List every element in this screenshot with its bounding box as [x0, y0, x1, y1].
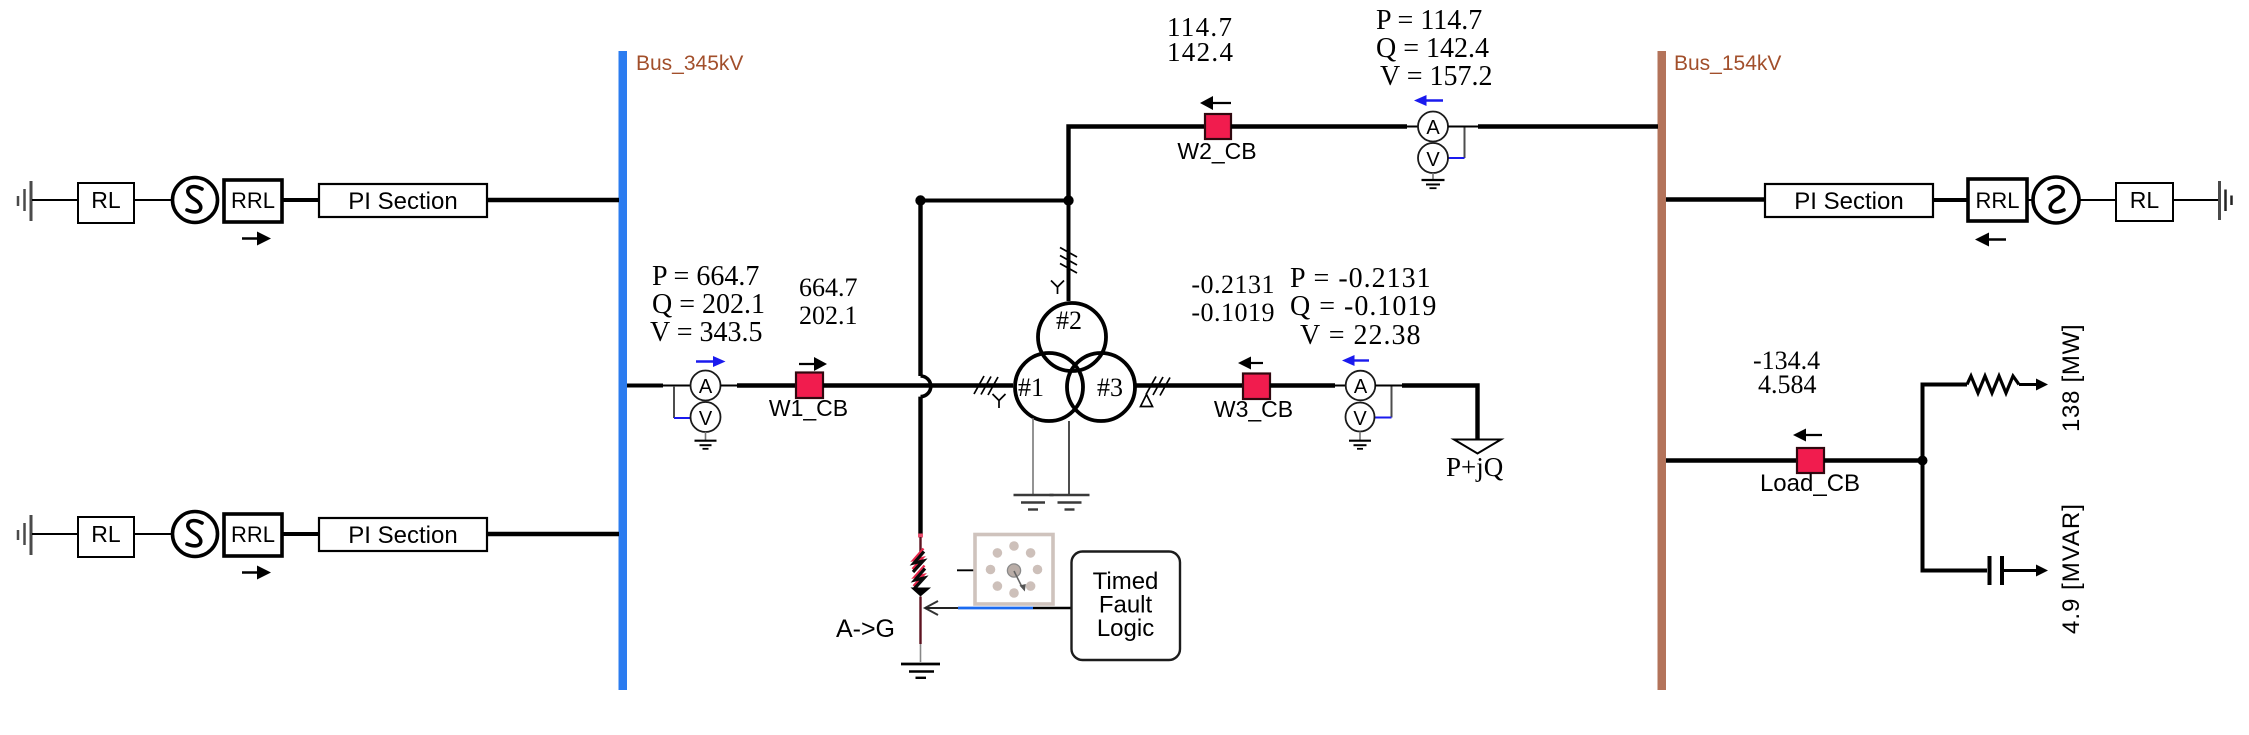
wire node A to node B	[918, 199, 1069, 203]
svg-text:Bus_345kV: Bus_345kV	[636, 52, 743, 75]
ground (meter W3)	[1349, 432, 1371, 449]
svg-text:PI Section: PI Section	[1794, 188, 1903, 215]
blue arrow (meter W1)	[696, 356, 726, 367]
svg-text:V: V	[699, 408, 713, 430]
transformer 3-winding: circle #2	[1038, 303, 1106, 371]
svg-text:Q = 202.1: Q = 202.1	[652, 289, 765, 320]
ammeter A (W1)	[691, 371, 721, 401]
ground (meter W2)	[1422, 173, 1445, 188]
svg-text:-0.2131: -0.2131	[1191, 270, 1275, 299]
blue arrow (meter W3)	[1342, 355, 1369, 366]
voltmeter V (W1)	[691, 402, 721, 432]
svg-text:RL: RL	[2130, 187, 2160, 213]
resistor-inductor RL (top-left)	[78, 183, 134, 223]
resistor load (MW)	[1967, 376, 2019, 393]
blue arrow (meter W2)	[1414, 95, 1443, 106]
text 114.7 142.4	[1167, 12, 1234, 67]
breaker W1_CB	[796, 373, 823, 399]
text 664.7 202.1	[799, 273, 858, 330]
wire ground to RL (top-left)	[32, 199, 78, 201]
svg-text:202.1: 202.1	[799, 301, 858, 330]
wire node B up and across to Bus_154kV (W2 run)	[1069, 127, 1206, 201]
wire fault branch vertical with hop over W1 wire	[918, 202, 922, 376]
fault bolt 1	[913, 549, 925, 573]
svg-text:Load_CB: Load_CB	[1760, 470, 1860, 497]
capacitor load (MVAR)	[1990, 556, 2003, 585]
svg-text:P+jQ: P+jQ	[1446, 452, 1504, 482]
svg-text:V = 22.38: V = 22.38	[1300, 320, 1422, 351]
text P=-0.2131 Q=-0.1019 V=22.38	[1290, 263, 1437, 351]
svg-text:W2_CB: W2_CB	[1177, 138, 1256, 164]
svg-text:W3_CB: W3_CB	[1214, 396, 1293, 422]
svg-text:V = 343.5: V = 343.5	[650, 317, 763, 348]
svg-text:V: V	[1353, 408, 1367, 430]
svg-text:Bus_154kV: Bus_154kV	[1674, 52, 1781, 75]
bus Bus_154kV	[1658, 51, 1667, 690]
wire W2_CB to meter	[1231, 124, 1407, 128]
delta symbol (winding 3)	[1141, 395, 1153, 407]
breaker W3_CB	[1243, 374, 1270, 400]
meter bracket W1	[674, 386, 690, 418]
winding ticks (above #2)	[1060, 248, 1077, 274]
arrow right (under RRL top-left)	[242, 232, 271, 246]
ammeter A (W3)	[1346, 371, 1376, 401]
arrow left (above Load_CB)	[1793, 429, 1822, 442]
wire to capacitor load	[1921, 569, 1988, 573]
fault module crimson tick	[918, 534, 923, 538]
svg-text:Q = -0.1019: Q = -0.1019	[1290, 291, 1437, 322]
fault lead maroon	[919, 537, 921, 553]
text P=114.7 Q=142.4 V=157.2	[1376, 5, 1493, 92]
wire source to RL (right)	[2079, 199, 2116, 201]
winding ticks (left of #1)	[974, 376, 998, 395]
svg-text:V = 157.2: V = 157.2	[1380, 61, 1493, 92]
fault arrowhead down	[911, 588, 932, 597]
svg-text:664.7: 664.7	[799, 273, 858, 302]
source S (bottom-left)	[173, 512, 218, 557]
svg-text:138 [MW]: 138 [MW]	[2058, 324, 2085, 432]
breaker Load_CB	[1797, 448, 1824, 473]
wire PI to RRL (right)	[1933, 198, 1968, 202]
wire to resistor load	[1921, 383, 1968, 387]
wire RL to source (top-left)	[134, 199, 173, 201]
svg-text:142.4: 142.4	[1167, 37, 1234, 67]
resistor-inductor RL (bottom-left)	[78, 517, 134, 557]
transformer ground stems	[1032, 418, 1034, 495]
svg-text:A: A	[699, 376, 713, 398]
transformer circle #3	[1067, 353, 1135, 421]
wire bus to meter W1	[627, 384, 663, 388]
svg-text:A: A	[1426, 117, 1440, 139]
PI Section (top-left)	[319, 184, 487, 217]
svg-text:RL: RL	[91, 187, 121, 213]
svg-text:-0.1019: -0.1019	[1191, 298, 1275, 327]
arrow right (above W1_CB)	[799, 357, 827, 371]
svg-text:PI Section: PI Section	[348, 188, 457, 215]
svg-text:RRL: RRL	[1975, 188, 2019, 213]
winding ticks (right of #3)	[1146, 377, 1170, 396]
wire meter to W1_CB	[721, 385, 738, 387]
svg-text:A->G: A->G	[836, 615, 895, 643]
svg-text:#2: #2	[1056, 306, 1082, 335]
PI Section (bottom-left)	[319, 518, 487, 551]
bus Bus_345kV	[619, 51, 628, 690]
wire RRL to PI (top-left)	[282, 198, 319, 202]
svg-text:4.9 [MVAR]: 4.9 [MVAR]	[2058, 503, 2085, 634]
node B junction dot	[1063, 195, 1073, 205]
svg-text:A: A	[1354, 376, 1368, 398]
wire Bus_154kV to PI (right)	[1666, 197, 1765, 201]
text P=664.7 Q=202.1 V=343.5	[650, 261, 765, 348]
ammeter A (W2)	[1418, 112, 1448, 142]
ground (fault)	[901, 664, 940, 678]
svg-text:P = -0.2131: P = -0.2131	[1290, 263, 1432, 294]
svg-text:#3: #3	[1097, 373, 1123, 402]
svg-text:Q = 142.4: Q = 142.4	[1376, 33, 1489, 64]
svg-text:PI Section: PI Section	[348, 522, 457, 549]
svg-text:#1: #1	[1018, 373, 1044, 402]
ground (right source)	[2220, 181, 2232, 220]
svg-text:RRL: RRL	[231, 188, 275, 213]
wire RRL to PI (bottom-left)	[282, 532, 319, 536]
meter bracket (W2)	[1448, 127, 1465, 159]
series impedance RRL (right)	[1968, 179, 2027, 221]
arrow right (MW)	[2019, 379, 2048, 391]
ground (bottom-left source)	[18, 515, 31, 555]
Y symbol (winding 2)	[1051, 281, 1064, 295]
wire RL to ground (right)	[2173, 199, 2219, 201]
meter bracket (W3)	[1375, 386, 1392, 418]
Timed Fault Logic box	[1072, 552, 1181, 661]
text -0.2131 -0.1019	[1191, 270, 1275, 327]
ground (meter W1)	[695, 432, 717, 449]
ground (top-left source)	[18, 181, 31, 221]
fault control signal arrow	[925, 601, 1071, 615]
voltmeter V (W2)	[1418, 143, 1448, 173]
arrow left (under RRL right)	[1975, 233, 2006, 247]
svg-text:4.584: 4.584	[1758, 370, 1817, 399]
wire node B down to transformer #2	[1067, 201, 1071, 302]
svg-text:Logic: Logic	[1097, 615, 1154, 642]
wire PI to bus (bottom-left)	[487, 532, 619, 536]
svg-text:RRL: RRL	[231, 522, 275, 547]
svg-text:P = 664.7: P = 664.7	[652, 261, 759, 292]
wire ground to RL (bottom-left)	[32, 533, 78, 535]
load branch vertical	[1921, 385, 1925, 571]
series impedance RRL (top-left)	[224, 180, 282, 222]
arrow right (MVAR)	[2004, 565, 2048, 577]
fault ground stem	[920, 644, 922, 662]
ground (transformer right)	[1050, 495, 1090, 510]
arrow left (above W3_CB)	[1238, 357, 1263, 370]
resistor-inductor RL (right)	[2116, 183, 2173, 221]
wire meter to Bus_154kV	[1448, 126, 1478, 128]
wire W1_CB to transformer #1	[823, 383, 1013, 387]
transformer circle #1	[1015, 353, 1083, 421]
text -134.4 4.584	[1753, 346, 1820, 399]
timer dial stub	[957, 569, 975, 571]
voltmeter V (W3)	[1346, 403, 1375, 432]
arrow right (under RRL bottom-left)	[242, 566, 271, 580]
load node junction dot	[1918, 456, 1928, 466]
svg-text:V: V	[1426, 149, 1440, 171]
wire W3_CB to meter	[1270, 383, 1335, 387]
svg-text:RL: RL	[91, 521, 121, 547]
ground (transformer left)	[1014, 495, 1054, 510]
wire RL to source (bottom-left)	[134, 533, 173, 535]
wire PI to bus (top-left)	[487, 198, 619, 202]
Y symbol (winding 1)	[993, 394, 1006, 408]
load symbol P+jQ triangle	[1454, 440, 1501, 454]
breaker W2_CB	[1205, 114, 1231, 139]
source S (right)	[2033, 177, 2079, 223]
wire transformer #3 to W3_CB	[1137, 383, 1244, 387]
PI Section (right)	[1765, 184, 1933, 217]
fault bolt 2	[914, 566, 926, 590]
fault lower lead maroon	[919, 597, 921, 645]
wire Bus_154kV to Load_CB	[1666, 458, 1797, 462]
wire RRL to source (right)	[2027, 199, 2034, 201]
timer dial icon	[975, 535, 1053, 605]
source S (top-left)	[173, 178, 218, 223]
wire meter to P+jQ load	[1375, 385, 1402, 387]
node A junction dot	[915, 195, 925, 205]
wire Load_CB to load node	[1824, 458, 1923, 462]
svg-text:W1_CB: W1_CB	[769, 395, 848, 421]
svg-text:P = 114.7: P = 114.7	[1376, 5, 1482, 36]
series impedance RRL (bottom-left)	[224, 514, 282, 556]
arrow left (above W2_CB)	[1200, 96, 1231, 110]
